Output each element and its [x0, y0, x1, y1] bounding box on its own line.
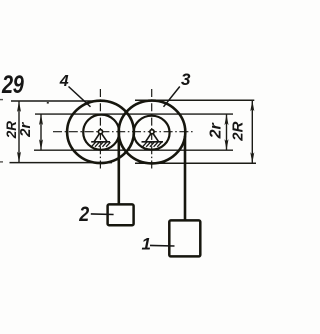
leader of label 2: [91, 213, 114, 216]
svg-text:3: 3: [181, 70, 191, 89]
pivot support left: hatching: [91, 142, 95, 147]
vertical centerline wheel 4: [99, 89, 101, 170]
pivot support left: legs: [91, 132, 110, 147]
string to weight 2: [118, 133, 121, 205]
center axis horizontal (dash-dot): [53, 131, 193, 133]
pivot pin left: [98, 130, 102, 134]
dimension 2r right: line: [225, 114, 229, 150]
wheel 4 outer circle: [67, 101, 134, 163]
speck dot: [47, 102, 49, 104]
dimension 2r left: line: [39, 114, 43, 150]
svg-text:2r: 2r: [208, 122, 225, 139]
leader of label 1: [150, 244, 175, 247]
leader of label 3: [164, 87, 180, 107]
svg-text:2R: 2R: [229, 121, 246, 141]
pivot support right: legs: [142, 132, 164, 147]
wheel 3 inner circle: [134, 116, 170, 150]
extension line bottom right segment: [135, 162, 256, 164]
svg-text:2: 2: [78, 203, 89, 227]
pivot pin right: [150, 130, 154, 134]
leader of label 4: [69, 87, 91, 107]
extension line inner top: [35, 113, 233, 115]
edge stub left top: [0, 99, 3, 101]
dimension 2R left: line: [17, 101, 21, 163]
svg-text:29: 29: [1, 71, 24, 99]
pivot support right: hatching: [143, 142, 147, 147]
edge stub left bottom: [0, 161, 3, 163]
vertical centerline wheel 3: [151, 89, 153, 170]
extension line inner bottom: [34, 149, 233, 151]
wheel 4 inner circle: [83, 115, 119, 150]
extension line top (outer tangent): [11, 100, 104, 102]
weight 1 box: [169, 220, 200, 256]
extension line top right segment: [135, 99, 254, 101]
dimension 2R right: line: [250, 100, 254, 163]
svg-text:1: 1: [142, 234, 151, 253]
svg-text:4: 4: [59, 73, 69, 90]
string to weight 1: [184, 136, 187, 221]
weight 2 box: [108, 204, 134, 225]
extension line bottom (outer tangent): [10, 162, 113, 164]
wheel 3 outer circle: [119, 101, 186, 164]
svg-text:2r: 2r: [17, 122, 34, 138]
